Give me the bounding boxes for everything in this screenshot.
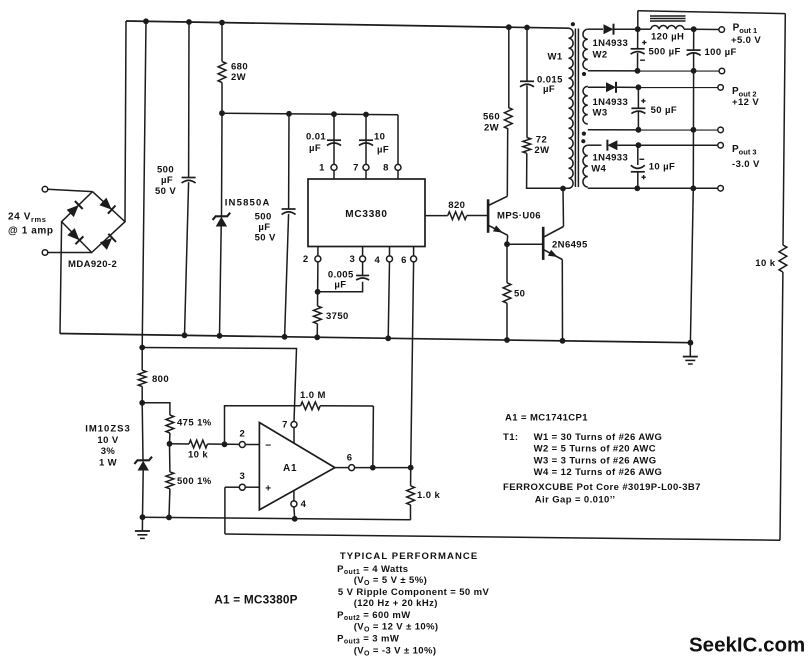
- svg-text:T1:: T1:: [503, 432, 518, 443]
- svg-text:IM10ZS3: IM10ZS3: [85, 423, 131, 434]
- svg-text:820: 820: [448, 200, 465, 211]
- transformer secondary W3 winding: [583, 86, 588, 124]
- svg-text:560: 560: [483, 112, 500, 123]
- bridge rectifier MDA920-2 diamond: [62, 192, 125, 253]
- wire W4 top to diode: [588, 144, 602, 146]
- junction main rail x507: [504, 337, 510, 343]
- wire 800 to reference node: [141, 387, 143, 403]
- bridge diode upper-right: [99, 198, 111, 210]
- transformer T1 primary W1 winding: [569, 28, 574, 188]
- svg-text:2N6495: 2N6495: [552, 239, 588, 250]
- junction main rail x222: [217, 333, 223, 339]
- transformer phasing dot W2: [582, 72, 586, 76]
- wire W3 top to diode: [588, 86, 606, 88]
- wire +5V to terminal: [694, 28, 719, 30]
- svg-text:500: 500: [157, 165, 174, 176]
- wire input bottom to bridge: [48, 252, 92, 254]
- svg-text:4: 4: [301, 499, 307, 510]
- wire pin7 branch: [365, 115, 367, 165]
- input terminal top: [42, 186, 48, 192]
- wire 0.005uF to pin2 node: [318, 282, 363, 292]
- wire zener to ground: [142, 471, 145, 518]
- junction pin2 node: [222, 441, 228, 447]
- wire zener IN5850A branch: [221, 113, 224, 216]
- svg-text:+12 V: +12 V: [732, 97, 759, 108]
- junction second rail x222: [219, 110, 225, 116]
- svg-text:A1: A1: [283, 463, 297, 474]
- pin circle 6: [411, 256, 417, 262]
- wire bottom sense line: [225, 534, 780, 540]
- svg-text:IN5850A: IN5850A: [225, 198, 271, 209]
- wire snubber branch top: [526, 28, 528, 82]
- junction primary bottom node: [560, 186, 566, 192]
- svg-text:2W: 2W: [534, 145, 549, 156]
- junction top rail x222: [219, 20, 225, 26]
- svg-text:(VO = 5 V ± 5%): (VO = 5 V ± 5%): [354, 575, 427, 587]
- wire -3V return: [588, 187, 718, 189]
- wire right sense drop (lower): [780, 272, 783, 540]
- wire input top to bridge: [48, 189, 93, 191]
- svg-text:W2: W2: [593, 49, 608, 60]
- wire triangle to pin4: [293, 491, 295, 502]
- wire pin4 to ground rail: [388, 262, 389, 339]
- svg-text:W3: W3: [593, 108, 608, 119]
- svg-text:500: 500: [255, 211, 272, 222]
- svg-text:Pout 3: Pout 3: [732, 144, 757, 157]
- wire pin7 stub: [365, 170, 367, 179]
- resistor 72 2W: [523, 138, 531, 154]
- svg-text:24 Vrms: 24 Vrms: [8, 212, 47, 225]
- wire feedback horizontal left: [225, 406, 301, 444]
- svg-text:(VO = -3 V ± 10%): (VO = -3 V ± 10%): [354, 645, 437, 657]
- svg-text:A1 = MC1741CP1: A1 = MC1741CP1: [505, 412, 588, 423]
- svg-text:100 µF: 100 µF: [705, 47, 737, 58]
- junction top rail x146: [143, 18, 149, 24]
- svg-text:Pout3 = 3 mW: Pout3 = 3 mW: [337, 634, 399, 646]
- svg-text:4: 4: [375, 255, 381, 266]
- svg-text:3: 3: [239, 471, 245, 482]
- wire 680 branch top: [221, 23, 223, 62]
- junction op-amp ground rail x142: [140, 514, 146, 520]
- svg-text:2W: 2W: [484, 123, 499, 134]
- pin circle 7: [363, 164, 369, 170]
- wire second rail (regulator supply): [222, 113, 398, 115]
- svg-text:W1: W1: [548, 52, 563, 63]
- junction main rail x388: [385, 335, 391, 341]
- wire MPS-U06 emitter down: [506, 235, 509, 244]
- wire raw DC feed line (to op-amp supply): [142, 21, 146, 347]
- svg-text:3750: 3750: [326, 311, 349, 322]
- wire pin3 input: [225, 486, 240, 488]
- svg-text:50 µF: 50 µF: [651, 105, 677, 116]
- wire zener IM10ZS3 branch: [141, 403, 144, 461]
- wire 2N6495 collector up to primary bottom: [562, 189, 565, 227]
- wire 560 / MPS-U06 collector: [508, 27, 510, 107]
- svg-text:50 V: 50 V: [255, 233, 276, 244]
- wire +5V return: [588, 70, 719, 72]
- junction main rail ground node: [688, 340, 694, 346]
- wire top positive rail: [126, 21, 569, 28]
- svg-text:1: 1: [319, 163, 325, 174]
- junction second rail x334: [331, 111, 337, 117]
- bridge diode upper-left: [67, 205, 79, 217]
- wire second 500uF cap branch: [288, 114, 290, 209]
- svg-text:MDA920-2: MDA920-2: [68, 259, 117, 270]
- wire 500 to op-amp ground rail: [168, 489, 171, 518]
- wire 680 to second rail: [221, 83, 223, 114]
- input terminal bottom: [42, 250, 48, 256]
- wire supply to 800: [141, 348, 143, 371]
- wire bridge - output down-lead: [60, 222, 62, 334]
- svg-text:W3 = 3 Turns of #26 AWG: W3 = 3 Turns of #26 AWG: [534, 455, 657, 466]
- wire pin3 stub: [362, 247, 364, 257]
- svg-text:72: 72: [536, 134, 547, 145]
- transformer phasing dot primary: [571, 22, 575, 26]
- wire MC3380 pin6 to op-amp output node: [411, 262, 414, 468]
- transformer phasing dot W3: [582, 132, 586, 136]
- svg-text:W4 = 12 Turns of #26 AWG: W4 = 12 Turns of #26 AWG: [534, 467, 663, 478]
- wire pin2 stub: [317, 247, 319, 257]
- svg-text:3%: 3%: [101, 446, 116, 457]
- pin circle op-amp 4: [291, 501, 297, 507]
- junction -3V return to common: [690, 185, 696, 191]
- wire pin7 into triangle: [293, 427, 295, 443]
- resistor 560 2W: [504, 107, 512, 128]
- svg-text:680: 680: [231, 62, 248, 73]
- junction divider node: [167, 441, 173, 447]
- wire op-amp ground rail: [143, 517, 411, 520]
- svg-text:1N4933: 1N4933: [593, 153, 629, 164]
- polarity + 50uF: [641, 100, 645, 102]
- svg-text:(VO = 12 V ± 10%): (VO = 12 V ± 10%): [354, 622, 439, 634]
- svg-text:7: 7: [353, 163, 359, 174]
- capacitor 0.015uF: [520, 80, 534, 82]
- junction second rail x289: [286, 111, 292, 117]
- svg-text:120 µH: 120 µH: [651, 32, 684, 43]
- polarity - 10uF: [639, 158, 644, 160]
- wire diode D1 to LC node: [614, 28, 638, 30]
- svg-text:+5.0 V: +5.0 V: [731, 35, 761, 46]
- diode 1N4933 D1: [604, 24, 614, 34]
- op-amp regulator IC MC3380 U1: [308, 179, 425, 247]
- svg-text:µF: µF: [543, 84, 555, 95]
- junction reference node: [139, 400, 145, 406]
- wire feedback horizontal right: [320, 405, 373, 407]
- wire output common return: [692, 71, 694, 189]
- wire 475 to divider node: [169, 433, 171, 444]
- junction top rail x189: [186, 19, 192, 25]
- inductor 120uH: [638, 28, 651, 30]
- pin circle op-amp 2: [239, 442, 245, 448]
- wire supply line to op-amp pin7: [142, 348, 296, 422]
- capacitor 10uF pin7: [359, 139, 373, 141]
- junction op-amp ground rail x169: [166, 515, 172, 521]
- resistor 50: [503, 283, 511, 303]
- capacitor 500uF output: [637, 29, 639, 49]
- wire 1.0k bottom link: [410, 505, 412, 520]
- svg-text:50: 50: [514, 288, 525, 299]
- junction supply node: [139, 345, 145, 351]
- output terminal Pout3-: [718, 143, 724, 149]
- junction +5V rectifier node: [635, 26, 641, 32]
- wire pin8 branch: [397, 115, 399, 165]
- svg-text:SeekIC.com: SeekIC.com: [689, 634, 805, 657]
- svg-text:@ 1 amp: @ 1 amp: [8, 226, 54, 237]
- wire feedback vertical: [372, 406, 375, 468]
- pin circle 4: [387, 256, 393, 262]
- transistor 2N6495 Q2: [543, 227, 563, 260]
- wire pin3 to cap: [362, 262, 364, 276]
- svg-text:10: 10: [374, 131, 385, 142]
- wire pin1 branch: [333, 114, 335, 164]
- capacitor 0.01uF: [327, 139, 341, 141]
- capacitor 500uF 50V input: [182, 177, 196, 179]
- wire sense riser to pin3: [224, 487, 226, 534]
- svg-text:A1 = MC3380P: A1 = MC3380P: [214, 593, 297, 607]
- svg-text:10 k: 10 k: [755, 258, 775, 269]
- wire +12V return: [588, 129, 718, 131]
- junction 10uF bottom: [634, 185, 640, 191]
- svg-text:W2 = 5 Turns of #20 AWC: W2 = 5 Turns of #20 AWC: [534, 444, 656, 455]
- transistor MPS-U06 Q1: [488, 196, 508, 235]
- wire pin3 to triangle: [245, 486, 259, 488]
- wire pin4 to ground rail: [293, 507, 296, 519]
- svg-text:3: 3: [349, 254, 355, 265]
- resistor 10k sense: [779, 245, 787, 272]
- wire pin6 stub: [413, 247, 415, 257]
- wire op-amp output: [335, 467, 349, 469]
- wire 500uF input cap branch: [188, 22, 190, 178]
- svg-text:-3.0 V: -3.0 V: [732, 159, 760, 170]
- svg-text:500 µF: 500 µF: [649, 47, 681, 58]
- capacitor 0.005uF: [356, 275, 369, 277]
- output terminal Pout1-: [719, 68, 725, 74]
- inductor 120uH core bars: [650, 15, 686, 17]
- output terminal Pout2+: [718, 85, 724, 91]
- svg-text:0.01: 0.01: [306, 131, 326, 142]
- svg-text:7: 7: [282, 420, 288, 431]
- pin circle op-amp 3: [239, 484, 245, 490]
- pin circle 8: [395, 164, 401, 170]
- transformer secondary W2 winding: [583, 29, 588, 69]
- svg-text:Pout 1: Pout 1: [733, 23, 758, 36]
- op-amp A1 triangle: [259, 423, 335, 510]
- wire output node: [354, 467, 410, 469]
- svg-text:TYPICAL PERFORMANCE: TYPICAL PERFORMANCE: [340, 551, 478, 562]
- wire 1.0k top link: [410, 468, 412, 486]
- junction main rail x189: [182, 332, 188, 338]
- junction 500uF bottom: [635, 68, 641, 74]
- resistor 800: [138, 370, 146, 386]
- bridge diode lower-right: [100, 238, 112, 250]
- svg-text:1 W: 1 W: [99, 458, 117, 469]
- polarity - 500uF: [640, 59, 645, 61]
- zener diode IM10ZS3: [134, 457, 152, 464]
- svg-text:Air Gap = 0.010’’: Air Gap = 0.010’’: [535, 494, 616, 505]
- svg-text:W4: W4: [591, 163, 606, 174]
- svg-text:6: 6: [347, 452, 353, 463]
- svg-text:2: 2: [239, 428, 245, 439]
- junction output/1.0k node: [408, 465, 414, 471]
- wire snubber middle: [526, 86, 528, 138]
- svg-text:800: 800: [152, 374, 169, 385]
- wire pin2 to 3750: [317, 262, 319, 306]
- wire pin2 to triangle: [245, 444, 259, 446]
- resistor 680 2W: [218, 62, 226, 83]
- transformer core: [574, 29, 576, 188]
- resistor 475 1%: [166, 415, 174, 433]
- wire pin1 stub: [333, 170, 335, 179]
- junction 50uF bottom: [636, 127, 642, 133]
- wire pin4 stub: [389, 247, 391, 257]
- output terminal Pout1+: [719, 27, 725, 33]
- wire +5V sense riser: [637, 11, 639, 30]
- svg-text:+: +: [265, 484, 271, 495]
- resistor 10k divider: [170, 443, 190, 445]
- polarity + 10uF: [641, 176, 645, 178]
- svg-text:µF: µF: [161, 175, 173, 186]
- junction 0.005uF to pin2 line: [315, 289, 321, 295]
- wire 50 to ground rail: [506, 303, 508, 340]
- svg-text:6: 6: [401, 255, 407, 266]
- svg-text:µF: µF: [309, 143, 321, 154]
- pin circle 2: [315, 256, 321, 262]
- svg-text:MC3380: MC3380: [345, 209, 388, 220]
- svg-text:1.0 M: 1.0 M: [300, 390, 326, 401]
- diode 1N4933 D2: [606, 82, 616, 92]
- svg-text:8: 8: [383, 163, 389, 174]
- junction +12V node: [636, 84, 642, 90]
- wire right sense drop (upper): [783, 14, 785, 245]
- junction +5V output node: [691, 26, 697, 32]
- junction emitter/base node: [504, 241, 510, 247]
- wire reference node to 475: [142, 403, 170, 415]
- zener diode IN5850A: [213, 213, 231, 220]
- svg-text:500 1%: 500 1%: [177, 476, 212, 487]
- ground symbol op-amp: [141, 517, 143, 531]
- wire 3750 to ground rail: [316, 324, 318, 338]
- svg-text:1N4933: 1N4933: [593, 38, 629, 49]
- capacitor 100uF: [693, 29, 695, 50]
- transformer phasing dot W4: [581, 139, 585, 143]
- wire pin8 stub: [397, 170, 399, 179]
- svg-text:MPS·U06: MPS·U06: [497, 210, 541, 221]
- capacitor 500uF 50V second: [282, 208, 296, 210]
- junction main rail x289: [282, 334, 288, 340]
- wire emitter node to 50: [506, 244, 508, 283]
- svg-text:10 k: 10 k: [188, 449, 208, 460]
- wire left rail to bridge + output: [125, 21, 126, 222]
- junction top rail x509: [506, 24, 512, 30]
- output terminal Pout3+: [718, 186, 724, 192]
- wire diode D2 to terminal: [617, 86, 718, 88]
- pin circle 3: [360, 256, 366, 262]
- junction main rail x317: [314, 334, 320, 340]
- junction second rail x366: [363, 112, 369, 118]
- wire emitter node to 2N6495 base: [507, 243, 543, 245]
- wire main ground rail: [60, 334, 690, 343]
- svg-text:µF: µF: [377, 144, 389, 155]
- pin circle op-amp 7: [291, 422, 297, 428]
- svg-text:50 V: 50 V: [155, 186, 176, 197]
- svg-text:FERROXCUBE Pot Core #3019P-L00: FERROXCUBE Pot Core #3019P-L00-3B7: [503, 482, 701, 493]
- junction op-amp ground rail pin4: [292, 516, 298, 522]
- svg-text:10 V: 10 V: [97, 435, 118, 446]
- resistor 1.0k: [407, 486, 415, 505]
- resistor 1.0M: [301, 402, 321, 410]
- junction top rail x527: [524, 25, 530, 31]
- svg-text:2W: 2W: [231, 72, 246, 83]
- junction +12V return to common: [691, 127, 697, 133]
- wire MC3380 output to 820: [425, 215, 448, 217]
- junction -3V node: [636, 142, 642, 148]
- resistor 820: [448, 212, 467, 220]
- junction 100uF bottom: [691, 68, 697, 74]
- wire W2 top to diode: [588, 28, 603, 30]
- junction main rail x563: [560, 338, 566, 344]
- junction feedback tap: [370, 465, 376, 471]
- svg-text:1.0 k: 1.0 k: [417, 490, 440, 501]
- wire 10k to pin2 node: [207, 443, 239, 445]
- svg-text:10 µF: 10 µF: [649, 162, 675, 173]
- svg-text:−: −: [265, 440, 271, 451]
- wire diode D3 to terminal: [618, 144, 719, 146]
- wire top sense line: [638, 11, 786, 14]
- wire 2N6495 emitter to ground rail: [561, 260, 563, 341]
- bridge diode lower-left: [67, 228, 79, 240]
- svg-text:2: 2: [303, 254, 309, 265]
- svg-text:µF: µF: [258, 222, 270, 233]
- svg-text:W1 = 30 Turns of #26 AWG: W1 = 30 Turns of #26 AWG: [534, 432, 663, 443]
- resistor 3750: [314, 306, 322, 324]
- ground symbol main: [689, 343, 691, 357]
- transformer secondary W4 winding: [583, 145, 588, 187]
- svg-text:1N4933: 1N4933: [593, 97, 629, 108]
- svg-text:5 V Ripple Component = 50 mV: 5 V Ripple Component = 50 mV: [338, 587, 490, 598]
- wire divider node to 500: [169, 444, 171, 472]
- svg-text:(120 Hz + 20 kHz): (120 Hz + 20 kHz): [354, 598, 438, 609]
- svg-text:Pout2 = 600 mW: Pout2 = 600 mW: [337, 610, 410, 622]
- svg-text:µF: µF: [334, 279, 346, 290]
- polarity + 500uF: [642, 42, 646, 44]
- resistor 500 1%: [166, 472, 174, 489]
- pin circle op-amp 6: [349, 465, 355, 471]
- output terminal Pout2-: [718, 127, 724, 133]
- wire snubber bottom to primary bottom: [527, 153, 569, 188]
- diode 1N4933 D3 (reversed): [607, 140, 617, 150]
- wire 820 to MPS-U06 base: [467, 215, 488, 217]
- svg-text:475 1%: 475 1%: [177, 417, 212, 428]
- capacitor 50uF: [637, 87, 639, 108]
- pin circle 1: [331, 164, 337, 170]
- capacitor 10uF: [637, 145, 639, 165]
